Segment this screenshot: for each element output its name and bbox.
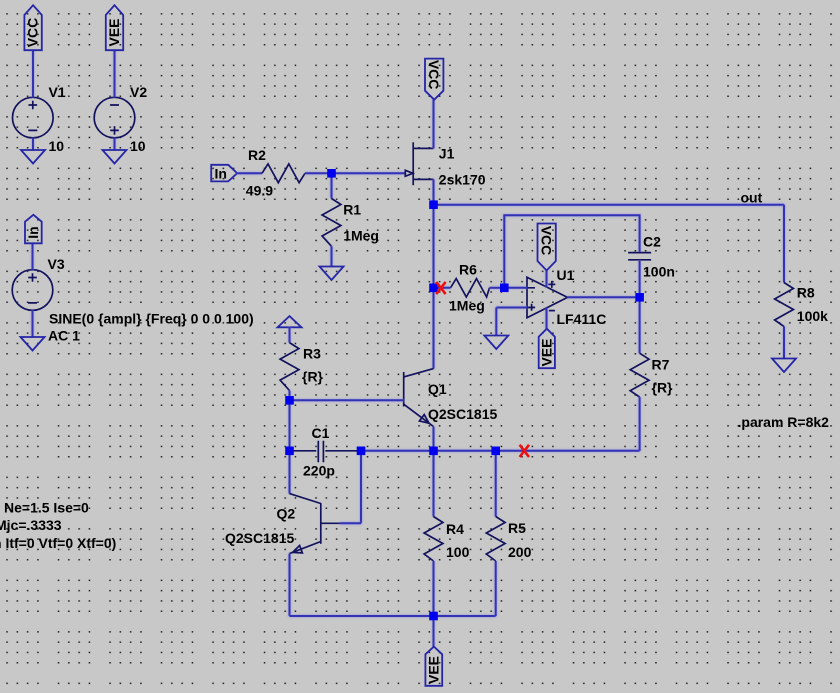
wire — [639, 261, 641, 298]
voltage source V1 — [13, 84, 66, 154]
svg-text:10: 10 — [130, 138, 146, 154]
wire — [434, 287, 451, 289]
wire — [289, 327, 291, 342]
transistor Q1 — [404, 369, 498, 427]
svg-text:Q2SC1815: Q2SC1815 — [225, 530, 294, 546]
svg-text:VCC: VCC — [539, 226, 555, 256]
svg-text:R3: R3 — [303, 346, 321, 362]
JFET J1 — [405, 142, 485, 187]
wire — [289, 391, 291, 401]
resistor R6 — [449, 261, 490, 313]
node junction — [491, 447, 500, 456]
wire — [546, 271, 548, 287]
resistor R4 — [424, 517, 469, 562]
svg-text:220p: 220p — [303, 463, 335, 479]
node junction — [285, 396, 294, 405]
svg-text:2sk170: 2sk170 — [439, 172, 486, 188]
flag VEE — [106, 5, 123, 50]
svg-text:out: out — [741, 190, 763, 206]
wire — [504, 287, 527, 289]
op-amp U1 — [527, 267, 606, 327]
wire — [32, 138, 34, 150]
ground — [103, 150, 127, 164]
wire — [32, 243, 34, 269]
svg-text:AC 1: AC 1 — [48, 328, 80, 344]
ground — [484, 336, 508, 350]
svg-text:1Meg: 1Meg — [343, 228, 379, 244]
resistor R1 — [322, 199, 379, 247]
svg-text:100: 100 — [446, 544, 470, 560]
svg-text:100k: 100k — [797, 308, 828, 324]
ground — [772, 359, 796, 373]
node junction — [285, 447, 294, 456]
svg-text:R4: R4 — [446, 521, 464, 537]
svg-text:R2: R2 — [248, 147, 266, 163]
wire — [331, 173, 333, 198]
wire — [290, 399, 404, 401]
svg-text:VEE: VEE — [425, 656, 441, 684]
node junction — [429, 612, 438, 621]
wire — [495, 451, 497, 517]
wire — [433, 179, 435, 204]
svg-text:R6: R6 — [459, 261, 477, 277]
resistor R5 — [486, 517, 531, 562]
flag VCC — [425, 59, 443, 100]
voltage source V3 — [12, 256, 253, 344]
marker X1 — [436, 282, 445, 294]
svg-text:R5: R5 — [508, 520, 526, 536]
svg-text:VCC: VCC — [426, 60, 442, 90]
node junction — [500, 284, 509, 293]
svg-text:VCC: VCC — [25, 18, 41, 48]
wire — [332, 172, 406, 174]
wire — [289, 400, 291, 493]
marker X2 — [520, 445, 529, 457]
flag VEE — [425, 647, 442, 686]
svg-text:R1: R1 — [343, 202, 361, 218]
wire opamp out — [568, 296, 640, 298]
wire — [433, 616, 435, 647]
svg-text:VEE: VEE — [538, 338, 554, 366]
svg-text:SINE(0 {ampl} {Freq} 0 0 0 100: SINE(0 {ampl} {Freq} 0 0 0 100) — [49, 311, 254, 327]
svg-text:In: In — [215, 165, 227, 181]
wire — [114, 138, 116, 150]
svg-text:.param R=8k2: .param R=8k2 — [738, 414, 830, 430]
wire — [433, 451, 435, 517]
wire — [331, 246, 333, 266]
svg-text:V2: V2 — [130, 84, 147, 100]
wire — [639, 297, 641, 353]
node junction — [429, 200, 438, 209]
svg-text:200: 200 — [508, 544, 532, 560]
svg-text:VEE: VEE — [106, 18, 122, 46]
svg-text:U1: U1 — [557, 267, 575, 283]
wire — [360, 451, 362, 524]
node junction — [327, 169, 336, 178]
wire — [32, 310, 34, 337]
svg-text:LF411C: LF411C — [557, 311, 607, 327]
svg-text:In: In — [25, 226, 41, 238]
svg-text:Q2: Q2 — [277, 506, 296, 522]
wire rail — [361, 450, 640, 452]
wire — [495, 308, 497, 336]
svg-text:10: 10 — [49, 138, 65, 154]
svg-text:{R}: {R} — [302, 369, 324, 385]
wire — [495, 561, 497, 616]
wire — [433, 100, 435, 149]
wire — [433, 427, 435, 451]
wire bottom rail — [290, 615, 496, 617]
wire — [305, 172, 332, 174]
svg-text:Ne=1.5 Ise=0: Ne=1.5 Ise=0 — [4, 500, 89, 516]
svg-text:n Itf=0 Vtf=0 Xtf=0): n Itf=0 Vtf=0 Xtf=0) — [0, 535, 116, 551]
node junction — [429, 284, 438, 293]
capacitor C2 — [628, 234, 675, 280]
ground rotated — [278, 316, 302, 327]
svg-text:Mjc=.3333: Mjc=.3333 — [0, 517, 62, 533]
ground — [21, 150, 45, 164]
svg-text:R7: R7 — [652, 357, 670, 373]
svg-text:C1: C1 — [312, 425, 330, 441]
svg-text:R8: R8 — [797, 284, 815, 300]
node junction — [635, 293, 644, 302]
wire — [32, 50, 34, 97]
resistor R2 — [246, 147, 305, 199]
wire out net — [434, 204, 785, 206]
svg-text:V3: V3 — [48, 256, 65, 272]
wire — [490, 287, 505, 289]
ground — [21, 337, 45, 351]
svg-text:{R}: {R} — [652, 380, 674, 396]
resistor R7 — [630, 353, 673, 397]
node junction — [429, 447, 438, 456]
wire — [496, 307, 527, 309]
svg-text:Q2SC1815: Q2SC1815 — [428, 406, 497, 422]
svg-text:49.9: 49.9 — [246, 183, 273, 199]
wire — [783, 205, 785, 283]
flag In — [25, 215, 42, 244]
port tag In — [211, 165, 237, 182]
resistor R8 — [775, 283, 829, 327]
svg-text:C2: C2 — [643, 234, 661, 250]
wire — [433, 205, 435, 369]
ground — [320, 267, 344, 281]
wire feedback — [504, 215, 639, 288]
voltage source V2 — [94, 84, 147, 154]
svg-text:Q1: Q1 — [428, 381, 447, 397]
svg-text:J1: J1 — [439, 146, 455, 162]
capacitor C1 — [293, 425, 359, 479]
wire — [783, 327, 785, 359]
svg-text:1Meg: 1Meg — [449, 297, 485, 313]
wire — [340, 522, 361, 524]
flag VEE — [538, 329, 555, 369]
svg-text:V1: V1 — [49, 84, 66, 100]
wire — [639, 397, 641, 451]
wire — [433, 561, 435, 616]
wire — [237, 172, 262, 174]
resistor R3 — [280, 343, 323, 391]
wire — [546, 308, 548, 329]
wire — [114, 50, 116, 97]
svg-text:100n: 100n — [643, 263, 675, 279]
wire — [289, 554, 291, 616]
transistor Q2 — [225, 494, 340, 554]
node junction — [357, 447, 366, 456]
model text — [0, 500, 116, 552]
flag VCC — [24, 5, 41, 50]
flag VCC — [538, 224, 556, 271]
